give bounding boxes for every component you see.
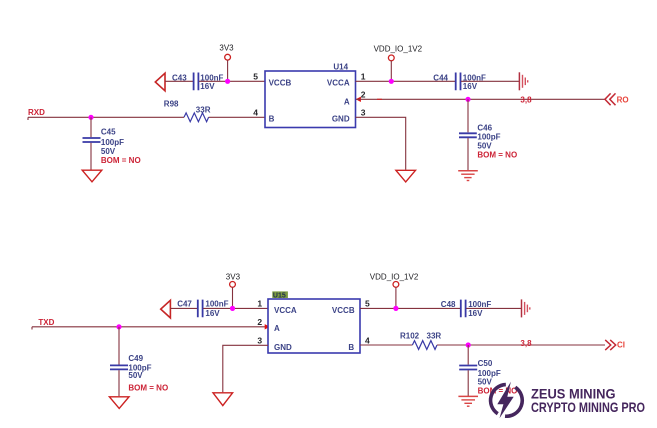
svg-text:100nF: 100nF (205, 300, 228, 309)
pin A arrowhead (into U14) (356, 97, 361, 102)
svg-text:5: 5 (253, 72, 258, 82)
wire C46 vertical top (467, 99, 469, 132)
wire R102 to CI port (437, 344, 605, 346)
svg-text:VCCB: VCCB (269, 78, 292, 87)
wire RXD left end stub (27, 117, 29, 120)
power VDD_IO_1V2 (bottom) (370, 273, 419, 309)
svg-text:3: 3 (257, 336, 262, 346)
svg-text:16V: 16V (205, 309, 220, 318)
svg-text:100pF: 100pF (477, 133, 500, 142)
logo bolt (497, 382, 513, 419)
wire C49 vertical top (118, 327, 120, 365)
ground U15 pin3 (power gnd triangle) (213, 393, 233, 406)
svg-text:BOM = NO: BOM = NO (477, 150, 517, 159)
power VDD_IO_1V2 (top) (374, 45, 423, 82)
capacitor C43 (172, 73, 224, 92)
wire U14 pin2 (A) to RO port (356, 98, 605, 100)
logo ring (Zeus Mining) (491, 385, 523, 417)
svg-text:CRYPTO MINING PRO: CRYPTO MINING PRO (531, 400, 645, 415)
junction node RXD/C45 (88, 115, 93, 120)
capacitor C45 (83, 128, 141, 165)
wire arrow to C43 (165, 80, 193, 82)
junction 3V3 / pin1 rail (bottom) (230, 306, 235, 311)
wire resistor R98 output to U14 pin 4 (209, 116, 265, 118)
capacitor C49 (110, 354, 168, 393)
wire RXD horizontal to resistor R98 (28, 116, 184, 118)
svg-text:C46: C46 (477, 124, 492, 133)
svg-text:C44: C44 (433, 74, 448, 83)
svg-text:TXD: TXD (38, 318, 54, 327)
wire C50 vertical top (467, 345, 469, 365)
svg-text:3: 3 (361, 108, 366, 118)
svg-text:100pF: 100pF (101, 138, 124, 147)
svg-text:BOM = NO: BOM = NO (128, 384, 168, 393)
wire C48 to chassis ground (466, 307, 521, 309)
svg-text:VDD_IO_1V2: VDD_IO_1V2 (370, 273, 419, 282)
svg-text:C49: C49 (128, 354, 143, 363)
chassis ground (rotated bars, bottom right) (522, 299, 530, 317)
svg-text:3,8: 3,8 (520, 96, 532, 105)
wire U14 pin3 (GND) right then down (356, 117, 406, 169)
svg-text:2: 2 (257, 317, 262, 327)
junction VDD rail / pin1 (389, 79, 394, 84)
power 3V3 (bottom) (226, 272, 241, 308)
svg-text:A: A (274, 324, 280, 333)
wire C46 vertical bottom (467, 138, 469, 170)
wire C45 vertical bottom (90, 143, 92, 170)
svg-text:C47: C47 (177, 300, 192, 309)
wire pin2 tick mark (377, 98, 382, 100)
wire U14 pin1 to C44 (356, 80, 456, 82)
capacitor C47 (177, 300, 228, 319)
wire C49 vertical bottom (118, 370, 120, 396)
svg-text:C45: C45 (101, 128, 116, 137)
wire C50 vertical bottom (467, 370, 469, 396)
ground C49 (power gnd triangle) (109, 397, 129, 409)
wire U15 pin4 (B) to resistor R102 (360, 344, 412, 346)
svg-text:5: 5 (365, 299, 370, 309)
svg-text:33R: 33R (427, 331, 442, 340)
wire U15 pin3 (GND) left then down (223, 345, 268, 392)
wire C45 vertical top (90, 117, 92, 137)
resistor R98 (164, 99, 211, 121)
svg-text:16V: 16V (200, 82, 215, 91)
junction pin4 / C50 (466, 342, 471, 347)
svg-text:CI: CI (617, 341, 625, 350)
svg-text:C50: C50 (478, 359, 493, 368)
svg-text:4: 4 (253, 108, 258, 118)
earth ground C50 (458, 396, 478, 406)
wire U15 pin5 to C48 (360, 307, 460, 309)
svg-text:RXD: RXD (28, 108, 45, 117)
ground C45 (power gnd triangle) (82, 170, 102, 182)
capacitor C44 (433, 73, 486, 92)
IC U15 (268, 291, 360, 353)
wire TXD to U15 pin 2 (32, 326, 268, 328)
svg-text:GND: GND (332, 114, 350, 123)
wire TXD left end stub (31, 327, 33, 330)
svg-text:VCCB: VCCB (332, 306, 355, 315)
svg-text:R98: R98 (164, 99, 179, 108)
svg-text:B: B (348, 343, 354, 352)
svg-text:1: 1 (257, 299, 262, 309)
wire C44 to chassis ground (461, 80, 519, 82)
svg-text:1: 1 (361, 72, 366, 82)
resistor R102 (400, 331, 441, 349)
port CI (605, 340, 625, 350)
svg-text:50V: 50V (478, 377, 493, 386)
capacitor C50 (459, 359, 517, 395)
capacitor C48 (441, 300, 492, 318)
pin A arrowhead (into U15) (265, 324, 270, 329)
port RO (605, 93, 629, 105)
earth ground C46 (458, 171, 478, 181)
svg-text:U14: U14 (333, 63, 348, 72)
junction 3V3 / pin5 rail (225, 79, 230, 84)
svg-text:4: 4 (365, 336, 370, 346)
wire C43 to U14 pin 5 (199, 80, 265, 82)
op-amp / IC U14 (265, 63, 356, 128)
chassis ground (rotated bars, top right) (519, 72, 527, 90)
svg-text:3V3: 3V3 (219, 44, 234, 53)
capacitor C46 (459, 124, 517, 160)
svg-text:3,8: 3,8 (520, 339, 532, 348)
junction pin2 / C46 (465, 97, 470, 102)
svg-text:RO: RO (617, 95, 629, 104)
svg-text:VCCA: VCCA (274, 306, 297, 315)
svg-text:VDD_IO_1V2: VDD_IO_1V2 (374, 45, 423, 54)
junction TXD / C49 (116, 324, 121, 329)
svg-text:16V: 16V (463, 82, 478, 91)
wire C47 to U15 pin 1 (203, 307, 268, 309)
svg-text:50V: 50V (477, 141, 492, 150)
svg-text:GND: GND (274, 343, 292, 352)
svg-text:2: 2 (361, 90, 366, 100)
port arrow C47 left (off-page) (161, 300, 171, 318)
power 3V3 (219, 44, 234, 82)
svg-text:3V3: 3V3 (226, 272, 241, 281)
svg-text:R102: R102 (400, 331, 420, 340)
svg-text:VCCA: VCCA (327, 78, 350, 87)
svg-text:C43: C43 (172, 74, 187, 83)
svg-text:C48: C48 (441, 300, 456, 309)
svg-text:50V: 50V (101, 147, 116, 156)
port arrow C43 left (off-page) (155, 73, 165, 91)
svg-text:16V: 16V (468, 309, 483, 318)
svg-text:BOM = NO: BOM = NO (101, 156, 141, 165)
svg-text:33R: 33R (196, 106, 211, 115)
wire arrow to C47 (170, 307, 197, 309)
svg-text:A: A (344, 98, 350, 107)
svg-text:B: B (269, 114, 275, 123)
junction VDD rail / pin5 (bottom) (393, 306, 398, 311)
svg-text:50V: 50V (128, 371, 143, 380)
ground U14 pin3 (power gnd triangle) (396, 170, 416, 182)
